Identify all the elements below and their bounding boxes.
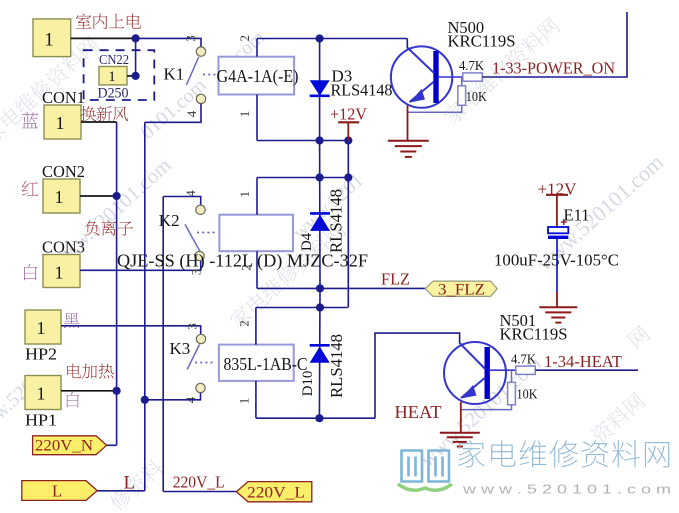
wire K3 coil pin 2 [255, 308, 257, 345]
relay K1 pin 1 number [237, 111, 252, 118]
svg-text:835L-1AB-C: 835L-1AB-C [224, 354, 308, 374]
label QJE-SS（H）-112L（D）MJZC-32F [117, 251, 368, 272]
node junction at CN22 top [132, 34, 140, 42]
node junction +12V/K2 rail [344, 173, 352, 181]
svg-text:1: 1 [37, 318, 46, 338]
label 100uF-25V-105C [494, 251, 619, 270]
label KRC119S (N500) [448, 32, 516, 51]
diode D3 [310, 39, 330, 141]
svg-text:KRC119S: KRC119S [500, 325, 568, 344]
switch K2 top contact [196, 205, 205, 214]
svg-text:10K: 10K [466, 89, 487, 104]
wire 10K to emitter (N501) [461, 405, 512, 410]
svg-text:D10: D10 [300, 371, 316, 397]
label 1-33-POWER_ON [492, 59, 615, 78]
svg-text:CON1: CON1 [42, 88, 85, 107]
svg-text:3: 3 [183, 35, 198, 42]
capacitor E11 [548, 227, 568, 239]
label 换新风 [81, 106, 128, 121]
svg-text:CN22: CN22 [99, 52, 129, 67]
wire N500 emitter to ground [407, 106, 409, 141]
label 负离子 [85, 220, 133, 235]
wire CN22 pin stub [127, 75, 132, 77]
wire HP2 to K3 pin 3 [61, 326, 201, 334]
wire K1 top rail [257, 38, 407, 40]
ground N500 [388, 141, 429, 157]
svg-text:RLS4148: RLS4148 [331, 81, 393, 100]
svg-text:K2: K2 [159, 211, 180, 230]
diode D10 [310, 288, 330, 418]
svg-text:4.7K: 4.7K [511, 352, 536, 367]
net tag 3_FLZ [425, 281, 497, 298]
wire L net vertical [144, 122, 146, 491]
label 1-34-HEAT [544, 352, 622, 371]
relay coil K3 box [219, 345, 294, 381]
switch K1 bottom contact [196, 94, 205, 103]
label N500 [448, 18, 485, 37]
wire top rail to N500 collector [406, 39, 408, 49]
relay coil K2 box [219, 215, 293, 252]
label E11 [564, 206, 590, 225]
switch K2 pin 3 number [189, 269, 204, 276]
wire 10K to emitter (N500) [408, 105, 462, 112]
relay K2 pin 1 number [237, 191, 252, 198]
svg-text:L: L [124, 473, 136, 494]
svg-text:1: 1 [56, 113, 65, 133]
label G4A-1A(-E) [217, 66, 299, 86]
label CN22 [99, 52, 129, 67]
svg-text:CON3: CON3 [42, 238, 85, 257]
wire K3 bottom rail [256, 417, 375, 419]
label 10K (N501) [517, 387, 538, 402]
switch K2 arm [185, 224, 200, 251]
label RLS4148 (D4) [327, 189, 346, 253]
node junction CN22 pin [132, 72, 140, 80]
label 白 (white) HP1 [67, 392, 79, 407]
switch K1 arm [186, 57, 198, 85]
connector HP1 box pin 1 [25, 376, 61, 410]
node junction D3 top [316, 34, 324, 42]
transistor N500 [391, 46, 463, 107]
svg-text:1: 1 [237, 191, 252, 198]
svg-text:D250: D250 [98, 86, 129, 102]
label 835L-1AB-C [224, 354, 308, 374]
label CON2 [42, 162, 85, 181]
svg-text:HEAT: HEAT [395, 402, 442, 422]
label 电加热 [67, 364, 113, 379]
wire base to 10K [461, 77, 463, 86]
wire CON1 to N net [81, 121, 117, 123]
connector CN22/D250 dashed outline [84, 50, 155, 100]
svg-text:3: 3 [185, 323, 200, 330]
svg-text:K3: K3 [170, 339, 191, 358]
switch K2 bottom contact [195, 251, 204, 260]
label 黑 (black) [64, 313, 80, 328]
svg-text:1: 1 [237, 398, 252, 405]
connector CN22 box pin 1 [99, 67, 127, 86]
resistor 4.7K (N501 base) [516, 366, 536, 374]
wire K1 bottom rail [257, 140, 348, 142]
label RLS4148 (D3) [331, 81, 393, 100]
label K2 [159, 211, 180, 230]
svg-text:2: 2 [237, 35, 252, 42]
node junction D3 bottom [316, 136, 324, 144]
wire 220V_L net to tag [163, 491, 236, 493]
label N501 [500, 311, 537, 330]
svg-text:4.7K: 4.7K [459, 58, 484, 73]
wire N net vertical [116, 122, 118, 445]
ground E11 [539, 307, 577, 322]
node junction CON2/N net [113, 192, 121, 200]
wire K1 coil pin 2 [256, 39, 258, 57]
wire POWER_ON [482, 12, 627, 77]
svg-text:220V_N: 220V_N [35, 438, 93, 455]
label HEAT [395, 402, 442, 422]
net tag 220V_N [33, 436, 107, 455]
switch K2 pin 4 number [183, 190, 198, 197]
transistor N501 [444, 342, 516, 404]
wire K3 rail to N501 collector [375, 333, 460, 418]
label CON3 [42, 238, 85, 257]
net tag L [22, 481, 97, 501]
label 10K (N500) [466, 89, 487, 104]
svg-text:1: 1 [237, 111, 252, 118]
node junction K3/L net [141, 396, 149, 404]
power +12V (E11) [538, 180, 578, 228]
svg-text:RLS4148: RLS4148 [327, 189, 346, 253]
svg-text:10K: 10K [517, 387, 538, 402]
wire node to K1 pin 3 [136, 38, 201, 47]
wire K2 coil pin 1 [256, 178, 258, 215]
wire N501 emitter to ground [460, 402, 462, 433]
switch K1 link dots [203, 74, 217, 76]
svg-text:1: 1 [55, 187, 64, 207]
resistor 4.7K (N500 base) [463, 73, 483, 81]
power +12V (K1) [330, 105, 368, 141]
logo url www.520101.com [462, 482, 671, 497]
node junction +12V rail [344, 136, 352, 144]
relay coil K1 box [219, 57, 295, 95]
switch K3 pin 4 number [183, 396, 198, 403]
wire K2 coil pin 2 [256, 251, 258, 288]
label 4.7K (N500) [459, 58, 484, 73]
switch K3 top contact [196, 334, 205, 343]
wire FLZ rail [257, 287, 425, 289]
wire E11 to ground [556, 239, 558, 307]
label L net [124, 473, 136, 494]
resistor 10K (N500) [458, 86, 466, 106]
connector CON2 box pin 1 [43, 179, 80, 213]
connector CON3 box pin 1 [43, 255, 80, 288]
switch K3 bottom contact [196, 383, 205, 392]
wire 220V_L net vertical [162, 197, 164, 492]
wire L tag to L net [97, 490, 145, 492]
label K3 [170, 339, 191, 358]
node junction HP1/N net [113, 387, 121, 395]
wire HP1 stub [61, 390, 117, 392]
wire from indoor-power box to node [71, 37, 136, 39]
label HP1 [25, 411, 57, 430]
wire K2 pin 4 to 220V_L net [163, 197, 201, 206]
connector 室内上电 (indoor power) box pin 1 [33, 19, 71, 57]
svg-text:220V_L: 220V_L [247, 485, 305, 502]
svg-text:220V_L: 220V_L [173, 473, 225, 492]
label D10 [300, 371, 316, 397]
svg-text:1-34-HEAT: 1-34-HEAT [544, 352, 622, 371]
wire K2 top rail [257, 177, 348, 179]
label 室内上电 [76, 14, 141, 29]
net tag 220V_L [236, 482, 311, 502]
wire K3 top rail [256, 307, 348, 309]
svg-text:HP1: HP1 [25, 411, 57, 430]
node junction D10 bottom [315, 414, 323, 422]
wire 220V_N to N net [107, 444, 117, 446]
svg-text:G4A-1A(-E): G4A-1A(-E) [217, 66, 299, 86]
wire K3 pin 4 to L net [145, 393, 201, 400]
node junction D4 bottom [316, 284, 324, 292]
label 4.7K (N501) [511, 352, 536, 367]
label K1 [164, 65, 185, 84]
label D250 [98, 86, 129, 102]
label D3 [332, 67, 353, 86]
label FLZ [381, 270, 410, 289]
svg-text:CON2: CON2 [42, 162, 85, 181]
capacitor E11 plus mark [561, 219, 567, 225]
label D4 [299, 232, 315, 251]
wire K3 coil pin 1 [255, 381, 257, 418]
wire +12V net vertical [347, 141, 349, 308]
wire K1 pin 4 to L net [145, 104, 201, 123]
svg-text:KRC119S: KRC119S [448, 32, 516, 51]
svg-text:FLZ: FLZ [381, 270, 410, 289]
relay K1 pin 2 number [237, 35, 252, 42]
svg-text:E11: E11 [564, 206, 590, 225]
svg-text:D4: D4 [299, 232, 315, 251]
wire CON2 stub [80, 195, 117, 197]
svg-text:L: L [52, 482, 62, 501]
label CON1 [42, 88, 85, 107]
svg-text:2: 2 [237, 320, 252, 327]
svg-text:1: 1 [37, 384, 46, 404]
label 白 (white) [24, 264, 37, 280]
svg-text:K1: K1 [164, 65, 185, 84]
switch K1 pin 4 number [184, 110, 199, 117]
svg-text:4: 4 [184, 110, 199, 117]
svg-text:100uF-25V-105°C: 100uF-25V-105°C [494, 251, 619, 270]
label 蓝 (blue) [22, 112, 38, 128]
resistor 10K (N501) [508, 382, 516, 405]
relay K3 pin 1 number [237, 398, 252, 405]
label HP2 [25, 345, 57, 364]
wire CON3 to K2 pin 3 [80, 261, 201, 270]
node junction D4 top [316, 173, 324, 181]
switch K3 arm [187, 345, 199, 370]
switch K2 link dots [197, 232, 215, 234]
logo book icon and site name 家电维修资料网 [398, 440, 669, 490]
wire K1 coil pin 1 [256, 95, 258, 141]
label RLS4148 (D10) [327, 334, 346, 398]
svg-text:+12V: +12V [330, 105, 368, 124]
svg-text:1: 1 [44, 30, 54, 51]
wire base to 10K (N501) [511, 370, 513, 382]
label 红 (red) [22, 181, 38, 196]
wire node down to CN22 pin [135, 38, 137, 76]
svg-text:1-33-POWER_ON: 1-33-POWER_ON [492, 59, 615, 78]
connector HP2 box pin 1 [25, 310, 61, 344]
svg-text:w w w . 5 2 0 1 0 1 . c o m: w w w . 5 2 0 1 0 1 . c o m [462, 482, 671, 497]
connector CON1 box pin 1 [44, 105, 81, 139]
ground N501 [440, 433, 480, 447]
wire 1-34-HEAT [535, 369, 638, 371]
svg-text:3_FLZ: 3_FLZ [438, 282, 485, 299]
switch K1 top contact [196, 47, 205, 56]
svg-text:HP2: HP2 [25, 345, 57, 364]
diode D4 [310, 141, 330, 289]
svg-text:1: 1 [55, 263, 64, 283]
label KRC119S (N501) [500, 325, 568, 344]
label 220V_L net [173, 473, 225, 492]
switch K3 link dots [195, 362, 215, 364]
svg-text:1: 1 [108, 69, 116, 85]
relay K2 pin 2 number [239, 264, 254, 271]
switch K1 pin 3 number [183, 35, 198, 42]
node junction D10 top [316, 303, 324, 311]
switch K3 pin 3 number [185, 323, 200, 330]
relay K3 pin 2 number [237, 320, 252, 327]
svg-text:RLS4148: RLS4148 [327, 334, 346, 398]
